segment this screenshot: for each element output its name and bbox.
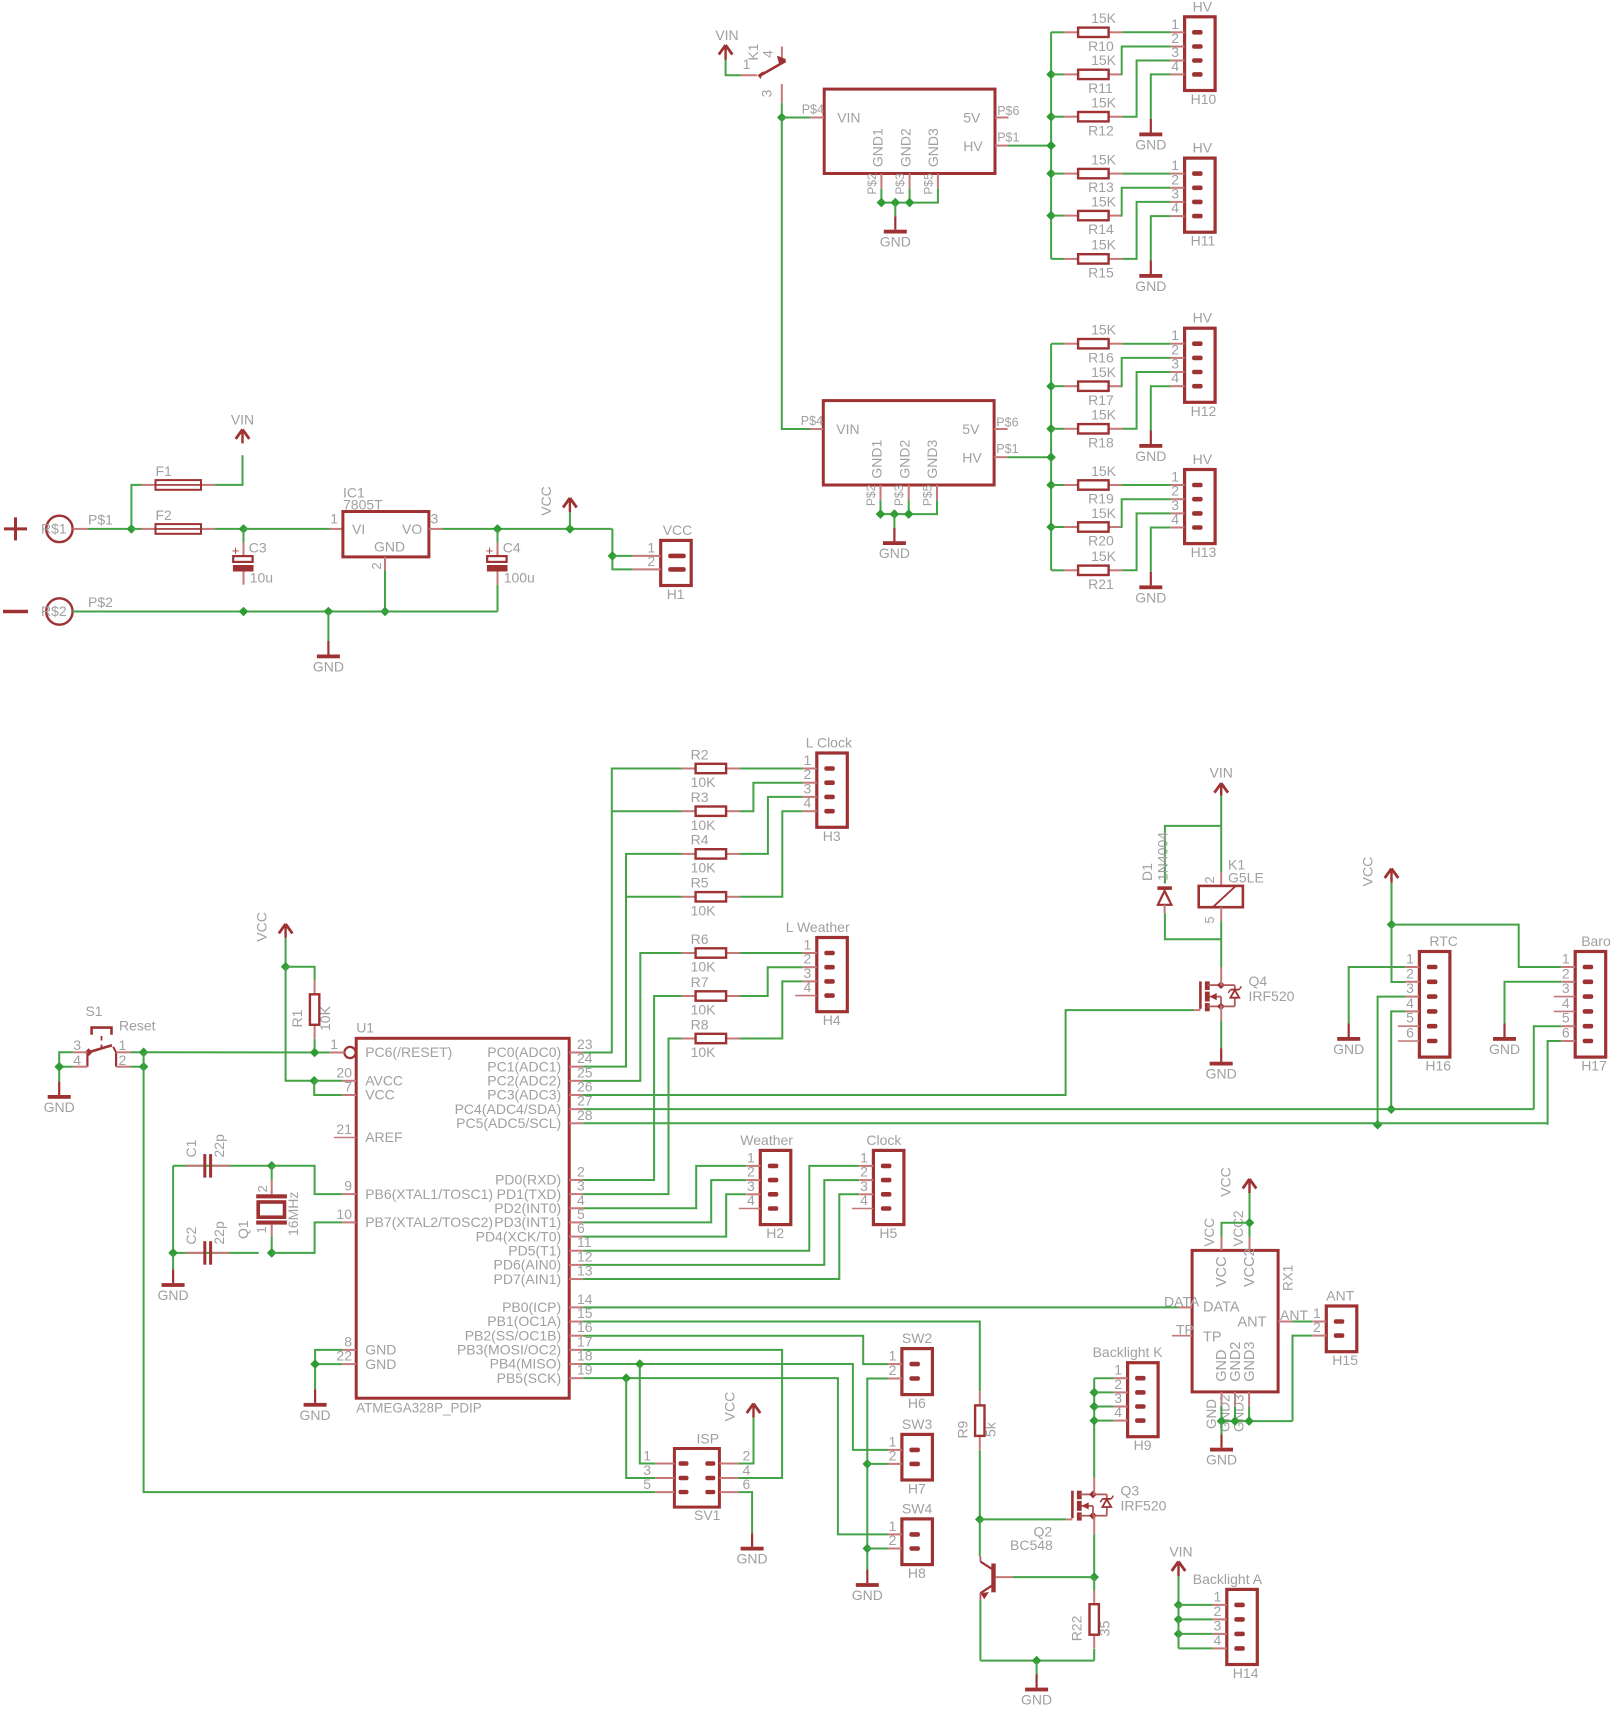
junction rxg3 [1244,1416,1254,1426]
svg-text:PC6(/RESET): PC6(/RESET) [365,1044,452,1060]
svg-text:GND: GND [1489,1041,1520,1057]
svg-text:R6: R6 [691,931,709,947]
svg-text:ANT: ANT [1238,1315,1267,1331]
wire C4 top green [497,529,499,543]
resistor R15 15K [1064,237,1122,281]
svg-text:VIN: VIN [1210,765,1233,781]
DC-DC converter module 2 [801,401,1019,507]
resistor R2 10K [682,746,740,790]
wire branch up to F1 [131,485,141,529]
svg-text:6: 6 [1406,1025,1414,1041]
svg-text:GND: GND [852,1587,883,1603]
svg-text:GND3: GND3 [925,128,941,167]
wire rx gnd rail [1222,1420,1293,1422]
wire coil to Q4 drain [1220,921,1222,967]
wire D1 to low side [1165,913,1221,939]
svg-text:GND: GND [1135,137,1166,153]
junction C3 bottom rail [239,607,249,617]
wire h14 pin1 wire [1179,1604,1213,1606]
svg-text:GND: GND [365,1356,396,1372]
wire R5 branch [626,896,682,898]
svg-text:D1: D1 [1139,863,1155,881]
svg-text:1: 1 [330,1036,338,1052]
svg-text:PD7(AIN1): PD7(AIN1) [494,1271,562,1287]
resistor R9 5k [954,1391,998,1449]
wire module1 gnd mid [909,189,911,203]
svg-text:IRF520: IRF520 [1121,1498,1167,1514]
relay contact K1 pin1 arrow [715,27,738,43]
svg-text:PC5(ADC5/SCL): PC5(ADC5/SCL) [456,1115,561,1131]
wire to H1 pins [612,529,632,570]
svg-text:10K: 10K [691,902,717,918]
svg-text:1: 1 [330,511,338,527]
svg-text:R15: R15 [1088,265,1114,281]
junction scl node [1373,1120,1383,1130]
svg-text:GND: GND [879,545,910,561]
wire h9 pin3 wire [1094,1406,1113,1408]
svg-text:PB5(SCK): PB5(SCK) [497,1370,562,1386]
svg-text:Q1: Q1 [235,1220,251,1239]
junction m1 gmid [891,198,901,208]
VIN arrow h14 [1172,1562,1186,1577]
svg-text:2: 2 [1313,1319,1321,1335]
svg-text:Clock: Clock [866,1132,902,1148]
wire R18 to H12.3 [1123,372,1171,429]
junction bus2 [1046,381,1056,391]
junction h14 node1 [1174,1600,1184,1610]
ground Q2 emitter [1021,1674,1052,1708]
junction bus1 [1046,169,1056,179]
wire H9 net to Q3 drain [1093,1378,1095,1478]
wire R22 top [1093,1577,1095,1590]
svg-text:16MHz: 16MHz [285,1192,301,1236]
wire R22 bottom [1093,1649,1095,1661]
capacitor C2 22p [183,1221,229,1265]
wire sck to ISP.3 [626,1378,655,1478]
svg-text:2: 2 [889,1532,897,1548]
wire vcc to rtc pin2 [1392,925,1406,982]
svg-text:Backlight A: Backlight A [1193,1571,1263,1587]
svg-text:HV: HV [1193,140,1213,156]
svg-text:VIN: VIN [1169,1544,1192,1560]
fuse F1 [142,463,215,490]
junction bus1 [1046,211,1056,221]
resistor R16 15K [1064,322,1122,366]
junction bus2 [1046,452,1056,462]
svg-text:VCC: VCC [663,522,693,538]
svg-text:VIN: VIN [836,421,859,437]
svg-text:ANT: ANT [1326,1288,1354,1304]
wire pin3 down to P$4 node [781,103,783,118]
svg-text:GND3: GND3 [1242,1342,1258,1382]
svg-text:2: 2 [255,1185,270,1192]
svg-text:H8: H8 [908,1565,926,1581]
svg-text:4: 4 [1171,370,1179,386]
wire row15 to R9 [583,1322,980,1392]
wire bus to R10 [1051,31,1064,33]
wire bus to R14 [1051,215,1064,217]
header H12 HV [1171,310,1217,419]
resistor R18 15K [1064,407,1122,451]
svg-text:C1: C1 [183,1139,199,1157]
svg-text:IRF520: IRF520 [1249,988,1295,1004]
svg-text:H5: H5 [879,1225,897,1241]
svg-text:GND: GND [880,234,911,250]
svg-text:35: 35 [1097,1620,1113,1636]
pad P$1 [41,511,113,542]
wire gnd stem [327,612,329,642]
svg-text:4: 4 [804,795,812,811]
wire pin2 to R7 [583,996,682,1180]
junction gnd stem rail [324,607,334,617]
plus terminal mark [4,517,27,540]
wire R20 to H13.2 [1122,499,1171,527]
svg-text:VO: VO [402,521,422,537]
wire IC1 pin2 to ground rail [384,570,386,611]
junction bus2 [1046,424,1056,434]
junction m2 g1 [876,509,886,519]
wire pin3 to R8 [583,1039,682,1195]
svg-text:15K: 15K [1091,505,1117,521]
pin P$1 [73,528,88,530]
junction xtal bottom node [267,1248,277,1258]
svg-text:P$1: P$1 [996,442,1018,456]
wire rtc pin4 to SDA [1391,1011,1405,1109]
wire h14 pin3 wire [1179,1633,1213,1635]
svg-text:BC548: BC548 [1010,1537,1053,1553]
wire xtal pin2 lead [271,1166,273,1180]
svg-text:GND: GND [737,1551,768,1567]
wire C2 gnd drop [172,1253,174,1270]
resistor R22 35 [1069,1590,1113,1648]
resistor R12 15K [1064,95,1122,139]
wire node to IC1 pin1 [244,528,330,530]
svg-text:2: 2 [119,1052,127,1068]
ground module2 [879,528,910,562]
resistor R11 15K [1064,52,1122,96]
junction C2 left node [168,1248,178,1258]
svg-text:15K: 15K [1091,95,1117,111]
svg-text:VIN: VIN [837,110,860,126]
wire h14 pin2 wire [1179,1618,1213,1620]
wire R14 to H11.2 [1122,188,1171,216]
svg-text:Weather: Weather [740,1132,793,1148]
wire bus to R12 [1051,116,1064,118]
svg-text:P$3: P$3 [893,173,907,195]
wire module1 gnd bus [881,189,938,203]
junction h9 pin3 [1089,1402,1099,1412]
svg-text:VCC: VCC [365,1087,395,1103]
wire branch to F2 [131,528,141,530]
svg-text:15K: 15K [1091,193,1117,209]
svg-text:H15: H15 [1332,1352,1358,1368]
wire bus to R19 [1051,484,1064,486]
svg-text:P$6: P$6 [997,104,1019,118]
svg-text:H12: H12 [1191,403,1217,419]
wire R16 to H12.1 [1123,343,1171,345]
junction rxg1 [1217,1416,1227,1426]
svg-text:R$1: R$1 [41,521,67,537]
svg-text:4: 4 [1114,1404,1122,1420]
svg-text:P$3: P$3 [892,484,906,506]
wire vcc to baro pin1 [1392,925,1562,967]
svg-text:P$6: P$6 [996,416,1018,430]
wire sw gnd bus [867,1379,888,1570]
svg-text:22p: 22p [211,1134,227,1158]
svg-text:9: 9 [344,1178,352,1194]
svg-text:C3: C3 [249,540,267,556]
svg-text:H13: H13 [1191,544,1217,560]
svg-text:4: 4 [1171,200,1179,216]
svg-text:H7: H7 [908,1481,926,1497]
svg-text:5k: 5k [982,1421,998,1437]
svg-text:GND3: GND3 [924,439,940,478]
resistor R17 15K [1064,364,1122,408]
svg-text:GND: GND [1135,278,1166,294]
svg-text:H10: H10 [1191,91,1217,107]
diode D1 1N4004 [1139,832,1172,913]
capacitor C1 22p [183,1134,229,1178]
wire bus to R11 [1051,73,1064,75]
svg-text:7: 7 [344,1079,352,1095]
junction m1 g1 [877,198,887,208]
wire vcc down to AVCC [286,967,315,1081]
wire ground rail [73,611,498,613]
header H17 Baro [1554,933,1611,1074]
svg-text:R17: R17 [1088,392,1114,408]
svg-text:H1: H1 [667,586,685,602]
wire ISP.6 to GND [739,1492,753,1533]
svg-text:10K: 10K [691,959,717,975]
svg-text:4: 4 [747,1192,755,1208]
wire R3 branch [612,810,682,812]
wire bus to R13 [1051,173,1064,175]
svg-text:2: 2 [889,1362,897,1378]
IC1 pin 3 stub [429,511,442,529]
svg-text:5V: 5V [963,110,981,126]
svg-text:ISP: ISP [697,1431,720,1447]
wire data wire [583,1306,1179,1308]
wire S1 pin2 wire [131,1066,144,1068]
ground Baro [1489,1024,1520,1058]
resistor R4 10K [682,832,740,876]
header H10 HV [1171,0,1217,107]
wire U1 gnd pin22 [315,1363,342,1365]
svg-text:P$5: P$5 [921,484,935,506]
wire VCC arrow stem [569,512,571,529]
wire vcc stem rtc [1391,883,1393,925]
svg-text:GND: GND [1021,1692,1052,1708]
wire vcc pin wire [314,1081,342,1095]
wire SDA long wire [583,1108,1534,1110]
wire H12.4 to gnd [1151,386,1171,430]
wire bus to R21 [1051,569,1064,571]
wire D1 branch top [1165,826,1221,884]
svg-text:1: 1 [254,1226,269,1233]
resistor R19 15K [1064,463,1122,507]
wire R13 to H11.1 [1123,173,1171,175]
svg-text:4: 4 [73,1052,81,1068]
svg-text:P$2: P$2 [88,594,113,610]
junction swgnd1 [863,1459,873,1469]
resistor R13 15K [1064,151,1122,195]
pad P$2 [41,594,113,625]
svg-text:Q4: Q4 [1249,973,1268,989]
svg-text:10: 10 [336,1206,352,1222]
junction m1 g2 [905,198,915,208]
svg-text:H11: H11 [1191,233,1216,249]
svg-text:R20: R20 [1088,533,1114,549]
ground H11 [1135,261,1166,295]
Q4 drain lead [1220,967,1222,985]
junction bus1 [1046,141,1056,151]
wire C3 top green [243,529,245,543]
svg-text:1: 1 [1562,951,1570,967]
svg-text:VCC: VCC [1214,1256,1230,1287]
svg-text:GND2: GND2 [896,439,912,478]
svg-text:Backlight K: Backlight K [1093,1344,1164,1360]
svg-text:3: 3 [1562,980,1570,996]
svg-text:VCC2: VCC2 [1231,1210,1246,1246]
junction bus2 [1046,480,1056,490]
svg-text:U1: U1 [356,1019,374,1035]
wire HV bus 2 [1050,344,1052,571]
svg-text:VI: VI [352,521,365,537]
ground RTC [1333,1024,1364,1058]
wire pin5 to H2.2 [583,1180,746,1222]
junction H1 pin1 node [608,551,618,561]
svg-text:VIN: VIN [231,411,254,427]
ground U1 [300,1389,331,1423]
svg-text:P$1: P$1 [88,511,113,527]
header H13 HV [1171,451,1217,560]
svg-text:R18: R18 [1088,434,1114,450]
wire R2 to H3.1 [740,768,803,770]
wire h9 pin4 wire [1094,1420,1113,1422]
svg-text:6: 6 [1562,1025,1570,1041]
junction q2 base node [1089,1572,1099,1582]
svg-text:2: 2 [369,562,384,569]
wire bottom node to pin10 [272,1222,343,1253]
junction VCC branch node [565,524,575,534]
svg-text:4: 4 [804,979,812,995]
supply VCC rx [1218,1167,1257,1197]
svg-text:GND: GND [313,659,344,675]
wire m1 gnd stem [894,203,896,217]
transistor Q4 IRF520 MOSFET [1200,973,1294,1011]
resistor R6 10K [682,931,740,975]
wire Q4 source wire [1220,1021,1222,1048]
svg-text:H4: H4 [823,1012,841,1028]
svg-text:SV1: SV1 [694,1507,721,1523]
wire bus to R18 [1051,428,1064,430]
svg-text:10K: 10K [691,1044,717,1060]
ground ISP [737,1533,768,1567]
svg-text:SW3: SW3 [902,1416,933,1432]
VIN label h14 [1169,1544,1192,1560]
fuse F2 [142,507,215,534]
wire R9 to gate node [979,1450,981,1519]
svg-text:R16: R16 [1088,349,1114,365]
svg-text:15K: 15K [1091,52,1117,68]
svg-text:5: 5 [1202,916,1217,923]
wire xtal bottom net [173,1166,259,1253]
resistor R7 10K [682,974,740,1018]
svg-text:GND: GND [374,539,405,555]
svg-text:GND: GND [44,1099,75,1115]
svg-text:3: 3 [759,89,775,97]
junction reset node a [139,1048,149,1058]
svg-text:15K: 15K [1091,10,1117,26]
switch S1 Reset [73,1003,156,1068]
RX1 module pins [1164,1210,1308,1432]
junction xtal top node [267,1161,277,1171]
wire Q4 gate wire [583,1010,1194,1095]
svg-text:3: 3 [431,511,439,527]
DC-DC converter module 1 [802,89,1020,195]
ground RX1 [1206,1434,1237,1468]
wire VIN to contact [726,60,741,75]
wire avcc wire [314,1080,342,1082]
wire baro pin6 scl [1548,1041,1562,1125]
wire q2 collector [979,1519,981,1556]
svg-text:C2: C2 [183,1226,199,1244]
wire xtal top net [173,1165,272,1167]
junction sda node [1386,1104,1396,1114]
svg-text:4: 4 [760,50,776,58]
wire R3 to H3.2 [740,783,803,812]
svg-text:R4: R4 [691,832,709,848]
wire Q3 source down [1093,1534,1095,1577]
svg-text:GND1: GND1 [869,128,885,167]
wire H10.4 to gnd [1151,74,1171,119]
svg-text:P$4: P$4 [801,414,823,428]
ground switches [852,1570,883,1604]
wire C4 bottom lead [497,585,499,612]
IC1 pin 1 stub [330,511,343,529]
regulator IC1 7805T [343,485,429,557]
junction m2 gmid [890,509,900,519]
svg-text:4: 4 [860,1192,868,1208]
junction C4 top node [493,524,503,534]
junction h14 node2 [1174,1615,1184,1625]
svg-text:P$2: P$2 [864,484,878,506]
svg-text:5V: 5V [962,421,980,437]
wire rail gnd stem [1036,1661,1038,1675]
svg-text:+: + [486,543,494,558]
svg-text:RTC: RTC [1429,933,1458,949]
VIN arrow relay [1214,783,1228,796]
wire vin stem h14 [1178,1576,1180,1605]
header H11 HV [1171,140,1216,249]
wire gate node to Q3 [980,1518,1066,1520]
svg-text:22p: 22p [211,1221,227,1245]
svg-text:VCC: VCC [1202,1218,1217,1247]
svg-text:P$1: P$1 [997,131,1019,145]
svg-text:7805T: 7805T [343,497,383,513]
junction vcc node [281,962,291,972]
svg-text:HV: HV [963,138,983,154]
svg-text:GND: GND [1135,589,1166,605]
svg-text:AREF: AREF [365,1129,402,1145]
svg-text:S1: S1 [85,1003,102,1019]
ground H12 [1135,431,1166,465]
svg-text:GND2: GND2 [1218,1394,1233,1432]
svg-text:R21: R21 [1088,576,1114,592]
Q3 gate stub2 [1066,1518,1072,1520]
header H4 L Weather [786,919,850,1028]
svg-text:SW4: SW4 [902,1500,933,1516]
